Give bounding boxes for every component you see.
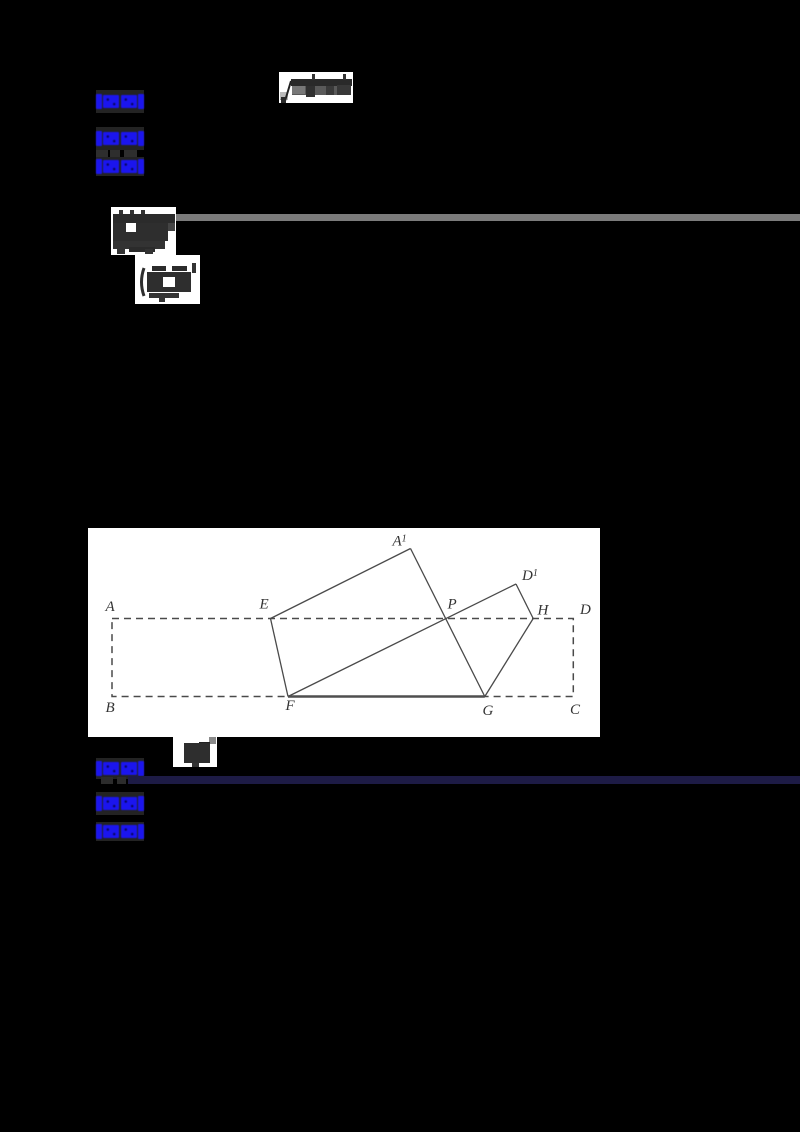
- wire E-A': [271, 549, 411, 619]
- faint gray marks under label2: [96, 150, 108, 158]
- wire D'-H: [516, 584, 533, 619]
- geometry figure box: [88, 528, 600, 737]
- solid fold lines: [271, 549, 534, 697]
- svg-text:D: D: [579, 602, 591, 618]
- svg-text:D1: D1: [521, 568, 538, 584]
- wire F-E: [271, 619, 289, 697]
- navy horizontal rule: [128, 776, 800, 784]
- blue label 3: [96, 157, 144, 176]
- wire H-G: [485, 619, 533, 697]
- blue label 1: [96, 90, 144, 113]
- formula image 3: [135, 255, 200, 304]
- svg-text:B: B: [106, 700, 115, 716]
- thick solid segment F-G: [288, 695, 485, 698]
- svg-text:E: E: [259, 597, 269, 613]
- svg-text:A: A: [105, 599, 116, 615]
- svg-text:A1: A1: [392, 534, 407, 550]
- labels: [105, 534, 592, 720]
- formula image 4: [173, 737, 217, 767]
- svg-text:P: P: [447, 597, 457, 613]
- dashed rectangle ABCD: [112, 619, 573, 697]
- svg-text:H: H: [537, 603, 550, 619]
- formula image 1 (radical expression): [279, 72, 353, 103]
- blue label 4: [96, 758, 144, 779]
- svg-text:F: F: [285, 698, 296, 714]
- blue label 2: [96, 127, 144, 150]
- svg-text:C: C: [570, 702, 581, 718]
- wire F-D': [288, 584, 516, 697]
- blue label 5: [96, 792, 144, 815]
- long gray rule to right of formula 2: [176, 214, 800, 221]
- wire A'-G through P: [411, 549, 485, 697]
- svg-text:G: G: [483, 703, 494, 719]
- formula image 2: [111, 207, 176, 255]
- faint gray blobs over rule start: [101, 777, 113, 784]
- blue label 6: [96, 822, 144, 841]
